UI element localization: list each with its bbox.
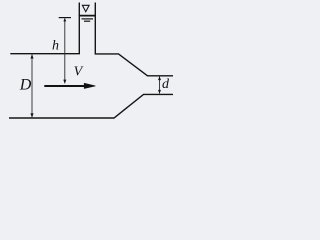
svg-text:V: V: [74, 65, 84, 80]
wire: large pipe top wall left segment + piezometer tube left wall: [10, 3, 79, 54]
wire: piezometer tube right wall + top wall right segment + contraction + small pipe top wall: [95, 3, 173, 76]
wire: velocity arrow V: [44, 83, 95, 88]
svg-text:h: h: [52, 38, 59, 53]
wire: d dimension line with arrowheads: [158, 76, 161, 93]
node free-surface symbol in piezometer tube: [79, 5, 96, 21]
wire: D dimension line with arrowheads: [30, 54, 33, 117]
svg-text:d: d: [162, 77, 170, 92]
svg-text:D: D: [19, 77, 32, 94]
node h level tick: [59, 17, 71, 19]
wire: pipe bottom wall + contraction + small pipe bottom wall: [9, 94, 173, 118]
wire: h dimension line with arrowheads: [63, 18, 66, 84]
